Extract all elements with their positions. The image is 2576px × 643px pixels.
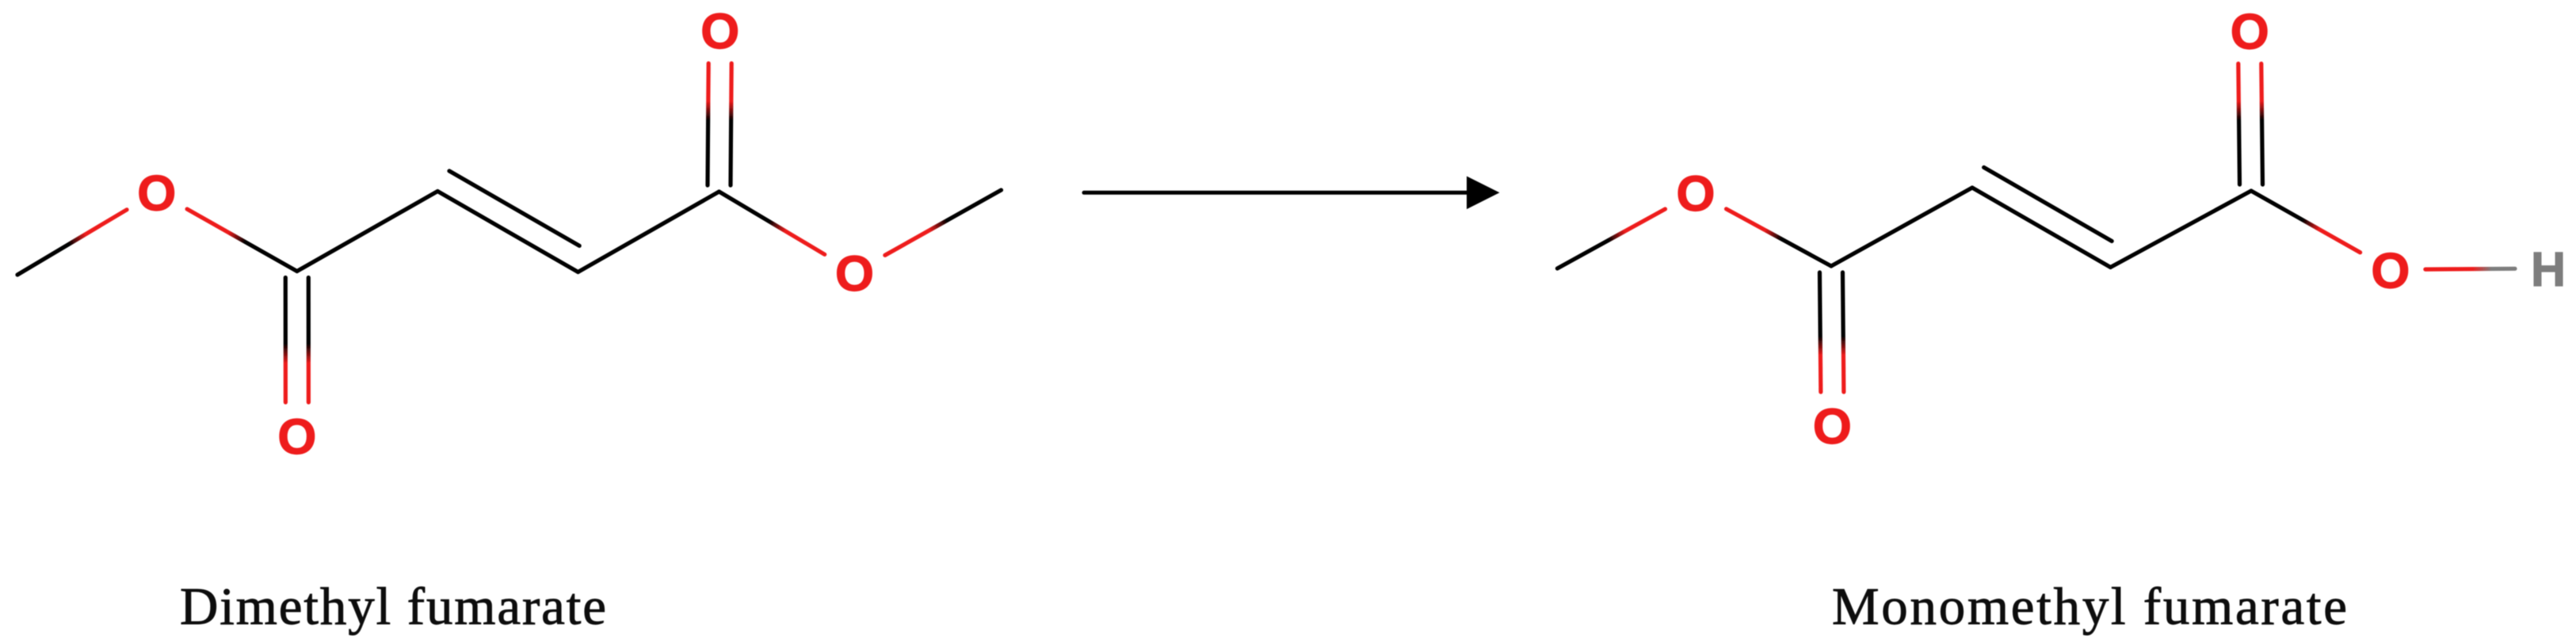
svg-text:O: O xyxy=(1676,166,1715,222)
svg-text:O: O xyxy=(2231,4,2269,59)
svg-text:O: O xyxy=(2371,243,2410,299)
svg-text:O: O xyxy=(1813,399,1852,455)
svg-text:O: O xyxy=(700,4,739,59)
svg-text:O: O xyxy=(835,246,874,302)
svg-text:H: H xyxy=(2531,242,2566,296)
svg-text:O: O xyxy=(277,409,316,465)
svg-text:Dimethyl fumarate: Dimethyl fumarate xyxy=(180,577,606,636)
svg-text:O: O xyxy=(137,166,176,221)
